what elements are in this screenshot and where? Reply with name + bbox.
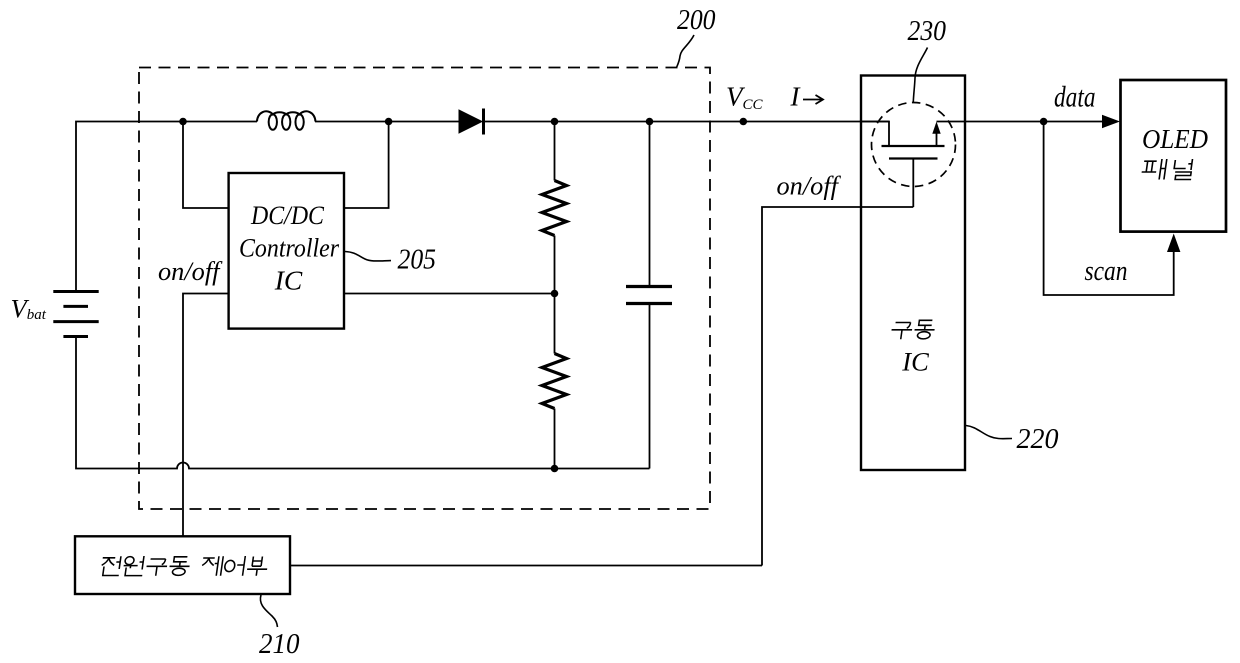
arrowhead data into OLED [1102, 115, 1120, 128]
node J4 top of capacitor [646, 118, 654, 126]
node J2 at inductor output [385, 118, 393, 126]
inductor L1 [257, 111, 315, 129]
node Vcc [740, 118, 748, 126]
wire inductor to diode [315, 121, 459, 123]
transistor 230 symbol [861, 122, 945, 208]
leader for 200 [677, 35, 695, 68]
label driver IC korean gu-dong [890, 320, 936, 339]
transistor 230 dashed circle [872, 103, 956, 187]
resistor R1 [542, 122, 567, 294]
svg-text:DC/DC: DC/DC [250, 201, 325, 230]
svg-text:IC: IC [274, 265, 303, 296]
svg-text:data: data [1054, 81, 1096, 113]
leader for 220 [966, 426, 1012, 439]
driver IC box 220 [861, 76, 965, 471]
wire J1 down to DC/DC left input [183, 122, 229, 209]
OLED panel box [1121, 80, 1227, 232]
svg-text:IC: IC [901, 347, 929, 377]
svg-text:Controller: Controller [239, 234, 340, 263]
control box 210 [75, 536, 290, 594]
label korean pae-neol [1141, 159, 1194, 180]
svg-text:230: 230 [908, 15, 947, 47]
node J7 data branch [1040, 118, 1048, 126]
wire diode to transistor source [484, 121, 889, 123]
battery Vbat [53, 292, 98, 337]
wire DC/DC feedback output to divider tap [344, 293, 555, 295]
node J1 at inductor input [179, 118, 187, 126]
svg-text:on/off: on/off [158, 257, 223, 286]
label korean power-drive control part [100, 556, 269, 576]
node J5 bottom of R2 [551, 465, 559, 473]
wire transistor gate to control box via on/off [762, 207, 913, 566]
svg-text:220: 220 [1017, 423, 1059, 455]
wire control box output to driver on/off [290, 565, 762, 567]
capacitor C1 [626, 122, 672, 469]
wire scan from J7 to OLED bottom [1044, 122, 1174, 296]
svg-text:210: 210 [259, 628, 300, 660]
wire J2 down to DC/DC right input [344, 122, 389, 209]
dashed box 200 boundary [139, 68, 710, 510]
wire on/off from DC/DC left down to control box [183, 294, 229, 537]
wire bottom bus with hop over on/off line [76, 337, 650, 469]
diode D1 [459, 109, 484, 135]
svg-text:200: 200 [677, 4, 716, 36]
DC/DC Controller IC box 205 [229, 173, 344, 329]
node J3 top of R1 [551, 118, 559, 126]
arrowhead scan into OLED bottom [1167, 234, 1180, 253]
wire transistor drain to data node [937, 121, 1103, 123]
node J6 divider tap [551, 290, 559, 298]
svg-text:on/off: on/off [777, 172, 842, 201]
resistor R2 [542, 294, 567, 469]
wire main bus from battery top to inductor [76, 122, 257, 292]
svg-text:205: 205 [398, 244, 437, 276]
svg-text:OLED: OLED [1142, 123, 1208, 154]
svg-text:scan: scan [1085, 255, 1128, 287]
leader for 210 [260, 595, 277, 627]
leader for 230 [913, 48, 927, 103]
leader for 205 [345, 252, 391, 262]
